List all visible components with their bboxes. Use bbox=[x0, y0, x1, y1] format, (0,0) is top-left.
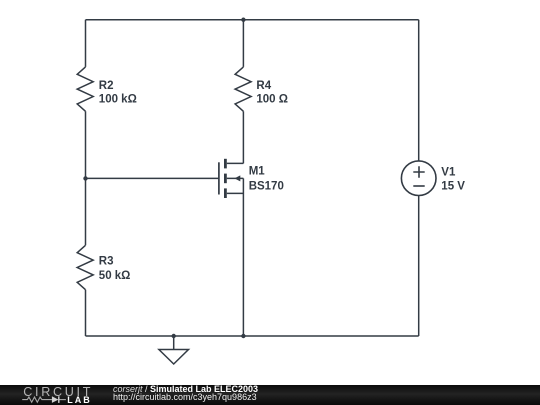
wire top horizontal bbox=[86, 19, 419, 21]
wire left rail lower (R3 to bottom) bbox=[85, 290, 87, 336]
ground bbox=[159, 336, 189, 364]
drain lead bbox=[227, 162, 244, 164]
svg-text:100 kΩ: 100 kΩ bbox=[99, 94, 137, 106]
wire mosfet source to bottom bbox=[242, 178, 244, 336]
svg-text:R2: R2 bbox=[99, 80, 114, 92]
node junction top bbox=[241, 18, 245, 22]
wire left rail upper (top to R2) bbox=[85, 20, 87, 67]
wire right rail lower (V1 to bottom) bbox=[418, 196, 420, 337]
svg-text:15 V: 15 V bbox=[441, 181, 465, 193]
minus sign bbox=[413, 185, 424, 187]
wire middle rail upper (top to R4) bbox=[242, 20, 244, 67]
svg-text:R3: R3 bbox=[99, 256, 114, 268]
resistor R3 bbox=[77, 245, 93, 289]
source lead bbox=[227, 192, 244, 194]
body lead with arrow bbox=[227, 177, 244, 179]
node junction ground tap bbox=[172, 334, 176, 338]
resistor R2 bbox=[77, 67, 93, 111]
footer credit text bbox=[113, 385, 258, 401]
circuitlab logo bbox=[0, 384, 110, 405]
node junction middle bottom bbox=[241, 334, 245, 338]
gate plate bbox=[218, 162, 220, 194]
plus sign bbox=[413, 166, 424, 177]
wire middle rail (R4 to mosfet drain) bbox=[242, 111, 244, 163]
channel bar body bbox=[224, 174, 227, 184]
channel bar drain bbox=[224, 159, 227, 169]
wire left rail middle (R2 to R3) bbox=[85, 111, 87, 245]
svg-text:50 kΩ: 50 kΩ bbox=[99, 270, 131, 282]
svg-text:R4: R4 bbox=[256, 80, 271, 92]
svg-text:V1: V1 bbox=[441, 167, 456, 179]
svg-text:BS170: BS170 bbox=[249, 180, 284, 192]
node junction gate tap bbox=[83, 176, 87, 180]
transistor Q M1 NMOS BS170 bbox=[219, 159, 244, 198]
wire bottom horizontal bbox=[86, 335, 419, 337]
voltage source V1 bbox=[401, 161, 436, 196]
svg-text:LAB: LAB bbox=[67, 395, 92, 405]
arrow head bbox=[234, 175, 240, 181]
resistor R4 bbox=[235, 67, 251, 111]
wire gate (left rail to M1 gate) bbox=[86, 177, 219, 179]
svg-text:100 Ω: 100 Ω bbox=[256, 94, 288, 106]
footer bar bbox=[0, 385, 540, 405]
wire right rail upper (top to V1) bbox=[418, 20, 420, 161]
channel bar source bbox=[224, 188, 227, 198]
svg-text:M1: M1 bbox=[249, 166, 266, 178]
